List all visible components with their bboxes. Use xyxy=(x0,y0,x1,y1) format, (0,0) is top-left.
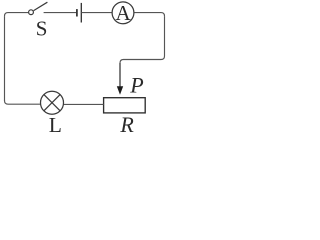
wire: rheostat left terminal to lamp xyxy=(63,103,103,105)
svg-text:P: P xyxy=(129,72,143,97)
wire: bottom-left corner to lamp xyxy=(5,101,42,105)
svg-text:R: R xyxy=(119,112,134,135)
lamp L cross stroke 2 xyxy=(44,95,60,111)
wire: ammeter to top-right corner xyxy=(134,13,164,17)
lamp L cross stroke 1 xyxy=(44,95,60,111)
wire: top-left from switch pivot to top-left corner xyxy=(5,13,29,17)
rheostat R body xyxy=(104,98,146,113)
svg-text:L: L xyxy=(49,113,62,135)
wire: right side vertical xyxy=(164,16,166,56)
wire: switch fixed contact to battery xyxy=(44,12,77,14)
switch S pivot circle xyxy=(29,10,34,15)
svg-text:S: S xyxy=(36,16,48,40)
battery cell: long positive plate xyxy=(80,3,82,23)
ammeter U1 circle xyxy=(112,2,134,24)
switch S blade (open) xyxy=(34,2,48,10)
lamp L circle xyxy=(41,91,64,114)
battery cell: short negative plate xyxy=(76,9,78,16)
svg-text:A: A xyxy=(116,1,132,25)
wire: left side vertical xyxy=(4,16,6,101)
wire: mid horizontal to slider drop xyxy=(120,56,165,63)
rheostat slider arrowhead xyxy=(117,86,123,95)
rheostat slider arrow shaft xyxy=(119,63,121,87)
wire: battery to ammeter xyxy=(81,12,112,14)
